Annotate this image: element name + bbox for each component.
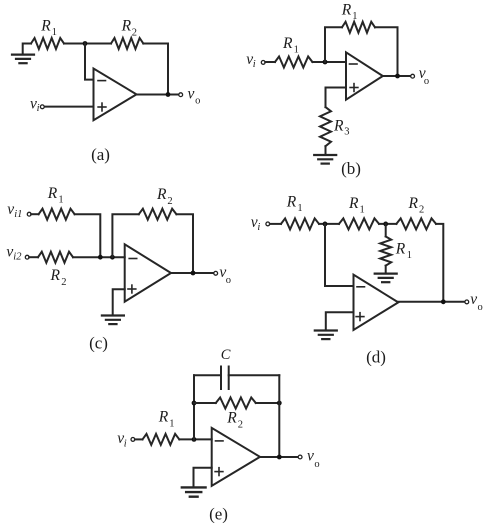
svg-text:o: o <box>314 459 319 470</box>
svg-text:R: R <box>121 17 132 34</box>
svg-text:R: R <box>40 17 51 34</box>
svg-text:i: i <box>124 438 127 449</box>
svg-text:2: 2 <box>132 28 137 39</box>
svg-text:(a): (a) <box>91 145 110 164</box>
svg-text:R: R <box>158 409 169 426</box>
svg-text:1: 1 <box>52 27 57 38</box>
svg-text:i: i <box>253 59 256 70</box>
svg-text:3: 3 <box>344 127 349 138</box>
svg-text:i: i <box>257 222 260 233</box>
svg-text:o: o <box>226 275 231 286</box>
svg-text:(d): (d) <box>366 348 386 367</box>
svg-text:R: R <box>156 186 167 203</box>
svg-text:1: 1 <box>360 204 365 215</box>
svg-text:2: 2 <box>167 196 172 207</box>
svg-text:R: R <box>286 193 297 210</box>
svg-text:R: R <box>282 35 293 52</box>
svg-text:o: o <box>195 96 200 107</box>
svg-text:C: C <box>221 347 231 363</box>
svg-text:1: 1 <box>352 11 357 22</box>
svg-text:v: v <box>470 291 477 308</box>
svg-text:1: 1 <box>297 203 302 214</box>
svg-text:R: R <box>226 410 237 427</box>
svg-text:(c): (c) <box>89 334 108 353</box>
svg-text:2: 2 <box>238 420 243 431</box>
svg-text:R: R <box>348 195 359 212</box>
svg-text:(b): (b) <box>341 159 361 178</box>
svg-text:i2: i2 <box>13 252 22 263</box>
svg-text:v: v <box>188 85 195 102</box>
svg-text:R: R <box>341 1 352 18</box>
svg-text:i: i <box>37 103 40 114</box>
svg-text:1: 1 <box>407 250 412 261</box>
svg-text:i1: i1 <box>14 209 22 220</box>
svg-text:R: R <box>333 118 344 135</box>
svg-text:(e): (e) <box>209 505 228 524</box>
svg-text:R: R <box>395 241 406 258</box>
svg-text:v: v <box>307 448 314 465</box>
svg-text:1: 1 <box>294 45 299 56</box>
svg-text:1: 1 <box>58 195 63 206</box>
svg-text:o: o <box>478 302 483 313</box>
svg-text:R: R <box>50 267 61 284</box>
svg-text:R: R <box>408 195 419 212</box>
svg-text:1: 1 <box>169 418 174 429</box>
svg-text:2: 2 <box>61 277 66 288</box>
svg-text:o: o <box>424 76 429 87</box>
svg-text:R: R <box>47 185 58 202</box>
svg-text:2: 2 <box>419 205 424 216</box>
